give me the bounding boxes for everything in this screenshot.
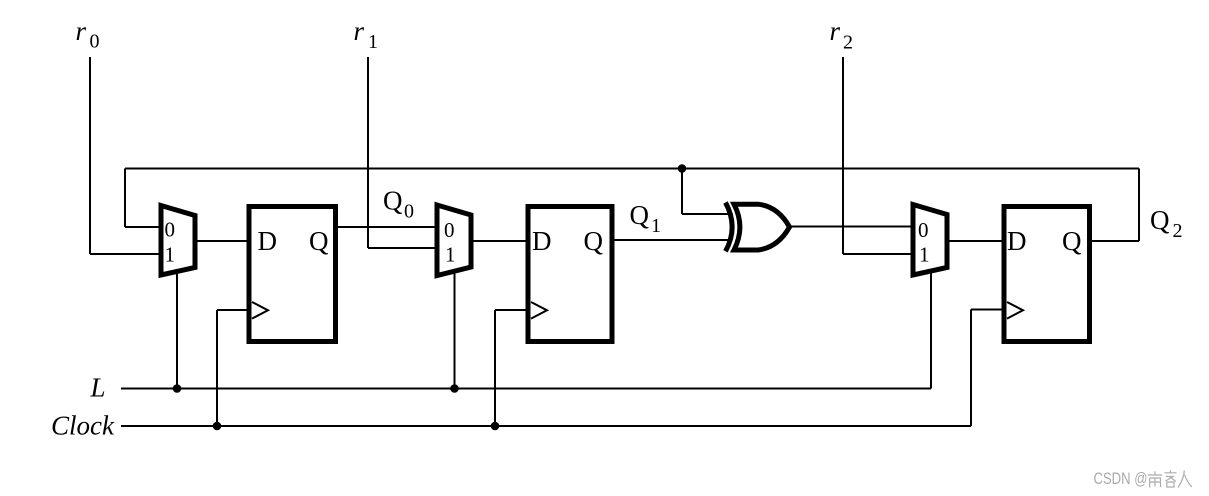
svg-text:0: 0: [165, 218, 176, 242]
XOR gate G1 body: [734, 204, 790, 250]
svg-text:2: 2: [843, 32, 853, 54]
svg-text:r: r: [76, 16, 87, 46]
multiplexer U3: [437, 205, 471, 276]
FF1 clock triangle: [252, 302, 268, 319]
svg-text:1: 1: [445, 243, 456, 267]
node L to mux U1 select junction: [173, 384, 182, 393]
label r0: [76, 16, 100, 53]
svg-text:D: D: [532, 226, 552, 256]
svg-text:0: 0: [444, 218, 455, 242]
svg-text:Q: Q: [584, 226, 604, 256]
wire FF3 clock horizontal: [971, 309, 1005, 311]
wire tap to xor upper input: [682, 213, 730, 215]
D flip-flop U6: [1004, 207, 1090, 342]
svg-text:CSDN @: CSDN @: [1094, 469, 1148, 488]
wire L line: [121, 388, 931, 390]
wire feedback left drop: [124, 169, 126, 228]
wire r0 vertical: [89, 57, 91, 254]
svg-text:Clock: Clock: [51, 411, 115, 441]
wire feedback right riser: [1138, 169, 1140, 242]
node feedback tap junction: [678, 164, 687, 173]
watermark CJK glyph ke: [1165, 470, 1177, 487]
wire FF2 clock horizontal: [495, 309, 529, 311]
svg-text:0: 0: [404, 201, 414, 223]
svg-text:r: r: [354, 16, 365, 46]
wire feedback tap drop: [681, 169, 683, 215]
svg-text:r: r: [830, 16, 841, 46]
label Q0: [383, 186, 414, 223]
svg-text:Q: Q: [1150, 205, 1170, 235]
wire FF2 clock riser: [494, 310, 496, 426]
label r1: [354, 16, 379, 53]
wire mux U1 select riser: [176, 272, 178, 389]
wire FF2 Q output to xor lower input: [612, 239, 730, 241]
watermark CJK glyph ren: [1178, 471, 1192, 488]
wire FF1 clock horizontal: [217, 309, 250, 311]
wire feedback top: [125, 168, 1139, 170]
label Q1: [630, 200, 662, 237]
wire mux U1 output to FF1 D: [195, 240, 250, 242]
node Clock to FF2 junction: [491, 422, 500, 431]
D flip-flop U2: [249, 207, 336, 342]
FF3 clock triangle: [1007, 302, 1023, 319]
svg-text:Q: Q: [1062, 226, 1082, 256]
svg-text:1: 1: [651, 215, 661, 237]
wire mux U5 output to FF3 D: [947, 240, 1005, 242]
wire mux U3 output to FF2 D: [471, 240, 529, 242]
svg-text:1: 1: [919, 243, 930, 267]
node Clock to FF1 junction: [213, 422, 222, 431]
wire r2 vertical: [842, 57, 844, 254]
wire FF1 Q output to mux2 input 0: [334, 226, 438, 228]
svg-text:Q: Q: [630, 200, 650, 230]
svg-text:0: 0: [918, 218, 929, 242]
wire r0 to mux1 input 1: [90, 253, 162, 255]
svg-text:D: D: [1007, 226, 1027, 256]
node L to mux U3 select junction: [450, 384, 459, 393]
wire feedback to mux1 input 0: [125, 226, 162, 228]
svg-text:0: 0: [90, 31, 100, 53]
D flip-flop U4: [528, 207, 612, 342]
wire mux U3 select riser: [454, 272, 456, 389]
multiplexer U5: [913, 205, 947, 276]
wire mux U5 select riser: [930, 272, 932, 389]
wire r1 vertical: [367, 57, 369, 248]
watermark CJK glyph nan: [1148, 471, 1162, 487]
svg-text:D: D: [258, 226, 278, 256]
svg-text:Q: Q: [383, 186, 403, 216]
multiplexer U1: [161, 206, 195, 276]
svg-text:1: 1: [368, 31, 378, 53]
wire r2 to mux3 input 1: [843, 253, 914, 255]
wire FF3 Q output: [1091, 240, 1139, 242]
svg-text:L: L: [90, 373, 106, 403]
XOR gate G1 input arc: [726, 203, 733, 252]
wire Clock line: [121, 425, 971, 427]
wire r1 to mux2 input 1: [368, 247, 438, 249]
wire FF3 clock riser: [970, 310, 972, 427]
svg-text:1: 1: [165, 243, 176, 267]
wire FF1 clock riser: [216, 310, 218, 426]
FF2 clock triangle: [531, 302, 547, 319]
label Q2: [1150, 205, 1183, 242]
svg-text:2: 2: [1173, 220, 1183, 242]
wire xor output to mux3 input 0: [790, 226, 914, 228]
svg-text:Q: Q: [309, 226, 329, 256]
label r2: [830, 16, 854, 54]
